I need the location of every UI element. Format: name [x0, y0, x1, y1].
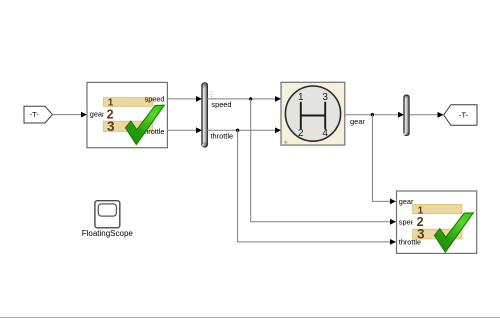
row 3 — [103, 121, 152, 131]
svg-text:4: 4 — [322, 128, 328, 139]
row 1 — [103, 98, 152, 107]
wire from tag to shift_logic block — [52, 112, 87, 118]
svg-text:-T-: -T- — [30, 110, 40, 119]
tiny signal icon — [210, 92, 214, 95]
svg-text:-T-: -T- — [459, 110, 469, 119]
wire speed branch down to scope block — [251, 99, 396, 225]
chart corner icon — [284, 140, 287, 143]
svg-text:2: 2 — [298, 128, 304, 139]
tiny anchor icon — [404, 132, 407, 135]
junction — [249, 97, 252, 100]
green check 2 — [435, 213, 474, 252]
row 2 — [413, 216, 462, 225]
svg-text:speed: speed — [145, 95, 165, 104]
wire mux2 to goto tag — [409, 112, 443, 118]
bottom right block (viewer with rows and check) — [397, 191, 477, 253]
green check 1 — [126, 105, 165, 144]
svg-text:gear: gear — [350, 117, 365, 126]
svg-text:speed: speed — [211, 100, 231, 109]
wire gear branch down to scope block — [372, 115, 396, 205]
svg-text:1: 1 — [298, 92, 304, 103]
junction — [371, 113, 374, 116]
svg-text:3: 3 — [107, 119, 115, 134]
svg-text:3: 3 — [417, 227, 425, 242]
wire gear out to mux2 — [345, 112, 404, 126]
mux bar 2 — [404, 95, 410, 135]
H pattern lines — [300, 102, 302, 130]
wire mux1 to chart throttle — [207, 127, 281, 140]
bottom separator line — [0, 317, 500, 319]
junction — [236, 129, 239, 132]
svg-text:3: 3 — [322, 92, 328, 103]
row 1 — [413, 204, 462, 213]
goto tag -T- — [444, 105, 477, 126]
svg-text:gear: gear — [90, 110, 105, 119]
from tag -T- — [24, 106, 52, 123]
row 3 — [413, 229, 462, 239]
svg-text:gear: gear — [399, 197, 414, 206]
svg-text:throttle: throttle — [211, 132, 234, 141]
block shift_logic (left block with rows and check) — [87, 82, 167, 147]
chart block (gear shift H pattern) — [281, 82, 345, 145]
row 2 — [103, 109, 152, 118]
wire speed out — [167, 96, 202, 102]
floating scope block — [82, 201, 134, 239]
wire mux1 to chart speed — [207, 96, 281, 109]
mux bar 1 — [202, 83, 213, 147]
svg-text:FloatingScope: FloatingScope — [82, 229, 134, 238]
wire throttle out — [167, 127, 202, 133]
wire throttle branch down to scope block — [238, 130, 396, 245]
